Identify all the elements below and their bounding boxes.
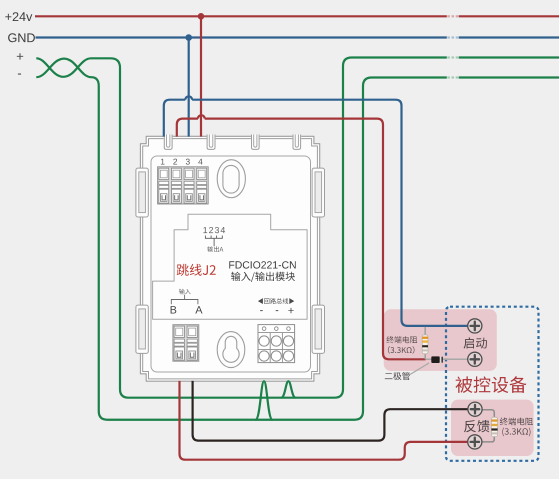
label 终端电阻 (启动): [386, 336, 417, 354]
terminal block TB3 (loop - - +): [258, 325, 295, 363]
反馈 connector wires: [482, 410, 494, 442]
junction dot GND: [185, 34, 192, 41]
module side rails: [136, 168, 325, 353]
wire spike to loop terminal -: [256, 381, 273, 420]
label GND: [8, 33, 35, 42]
wire blue GND drop to terminal 3: [188, 38, 190, 137]
terminal numbers 1 2 3 4: [161, 159, 203, 165]
wire GND bus: [36, 36, 559, 38]
wire red +24v drop to terminal 4: [200, 16, 202, 136]
screw terminal 启动 2: [468, 352, 482, 366]
label 启动: [464, 337, 487, 348]
label 被控设备: [456, 376, 527, 393]
line break marks: [447, 15, 459, 79]
wire black feedback B: [193, 381, 468, 441]
label 输入/输出模块: [231, 272, 295, 282]
启动 resistor leads: [424, 327, 426, 359]
resistor 终端电阻 3.3K (启动): [422, 335, 428, 354]
label 反馈: [464, 420, 490, 432]
screw terminal 反馈 2: [468, 435, 482, 449]
label 回路总线: [258, 298, 294, 304]
label 终端电阻 (反馈): [500, 418, 533, 437]
node 反馈 pink box: [451, 400, 534, 456]
resistor 终端电阻 3.3K (反馈): [491, 417, 497, 436]
label 输出A: [207, 246, 223, 252]
wire +24v bus: [35, 15, 559, 17]
wire spike to loop terminal +: [281, 381, 295, 398]
label A: [195, 306, 202, 313]
wire green loop + (twisted pair): [36, 58, 559, 398]
wire red terminal2 to diode: [177, 115, 426, 359]
keyhole cutout: [217, 332, 245, 368]
label 跳线J2: [177, 264, 216, 276]
jumper bracket: [205, 236, 222, 247]
terminal block TB2 (B A): [173, 325, 199, 362]
label +: [17, 53, 23, 59]
label -: [18, 74, 21, 75]
module inner panel: [151, 156, 311, 372]
label 输入: [179, 289, 191, 295]
labels - - +: [260, 308, 294, 313]
oval cutout top: [217, 160, 245, 198]
screw terminal 反馈 1: [468, 402, 482, 416]
jumper pins label 1234: [203, 227, 225, 233]
label FDCIO221-CN: [229, 261, 295, 268]
terminal block TB1 (1-4): [158, 167, 209, 204]
input bracket: [171, 295, 198, 304]
wire blue terminal1 to 启动 screw: [164, 96, 468, 326]
node 被控设备 dashed enclosure: [446, 307, 539, 461]
module housing outer: [140, 136, 319, 381]
junction dot +24v: [198, 13, 205, 20]
module label area: [153, 214, 308, 319]
wire dark red feedback A: [180, 381, 469, 460]
label B: [171, 306, 177, 313]
diode pointer line: [410, 363, 429, 375]
label 二极管: [385, 372, 410, 380]
node 启动 pink box: [384, 309, 497, 371]
label +24v: [5, 12, 32, 21]
module top slots: [164, 134, 301, 149]
diode D1: [426, 356, 469, 363]
wire green loop - (twisted pair): [36, 59, 559, 420]
screw terminal 启动 1: [468, 319, 482, 333]
